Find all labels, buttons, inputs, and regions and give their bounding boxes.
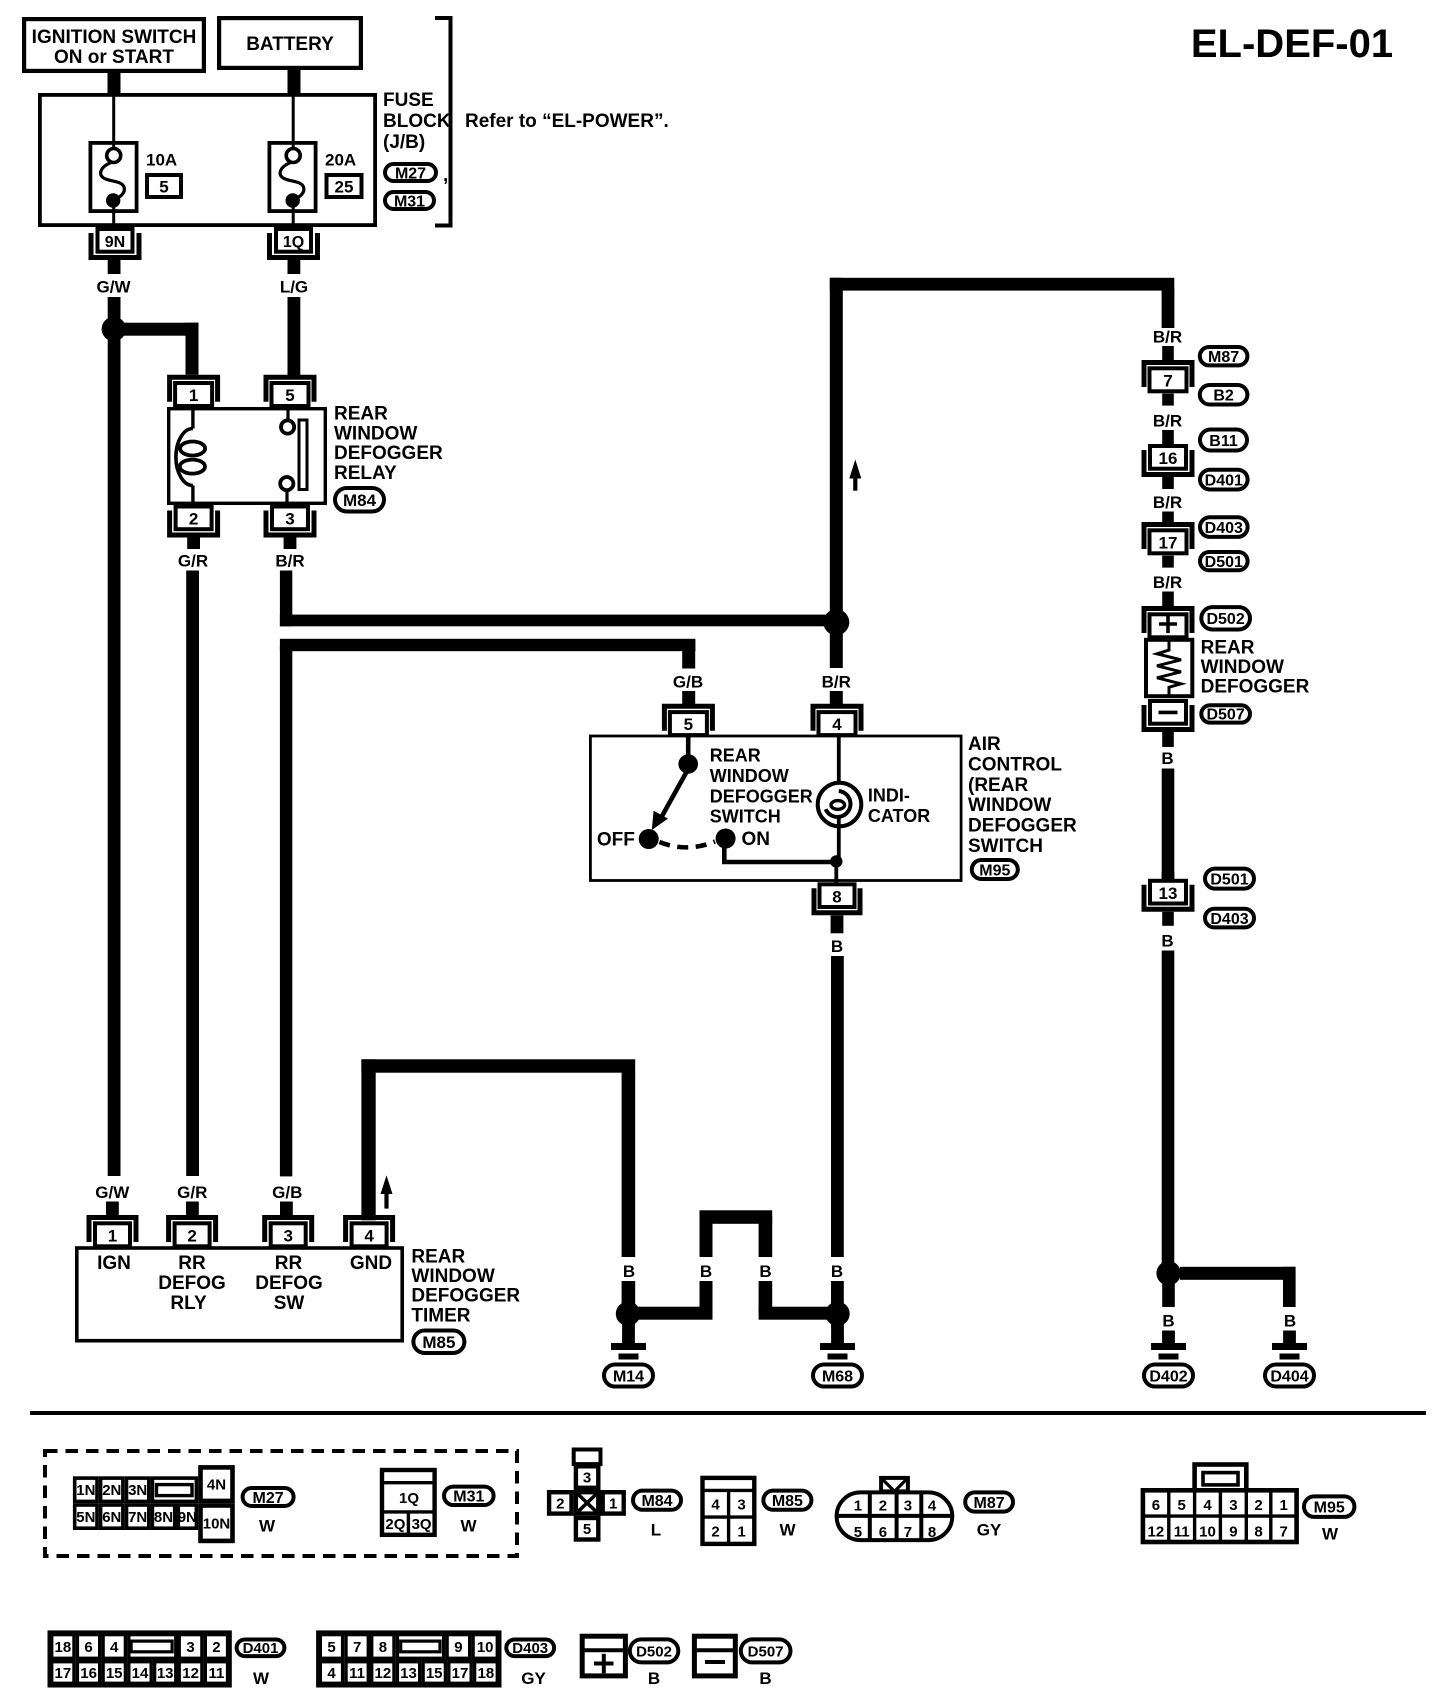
svg-text:D501: D501 <box>1210 871 1248 888</box>
svg-text:OFF: OFF <box>597 830 635 851</box>
svg-text:B: B <box>700 1262 712 1281</box>
svg-text:IGN: IGN <box>97 1253 131 1274</box>
connector ref D502 (chain) <box>1201 607 1250 629</box>
svg-text:2Q: 2Q <box>385 1516 405 1533</box>
svg-text:(J/B): (J/B) <box>383 132 425 153</box>
junction ground node M14 <box>616 1302 640 1326</box>
svg-text:SWITCH: SWITCH <box>710 807 781 827</box>
svg-text:2: 2 <box>212 1639 220 1656</box>
svg-text:CATOR: CATOR <box>868 806 930 826</box>
svg-text:B: B <box>1162 1312 1174 1331</box>
connector 9N (fuse block out) <box>91 229 139 258</box>
svg-text:5: 5 <box>327 1639 335 1656</box>
svg-text:ON or START: ON or START <box>54 47 174 68</box>
svg-text:12: 12 <box>375 1665 392 1682</box>
connector ref M87 (legend) <box>965 1492 1013 1511</box>
svg-text:1: 1 <box>108 1226 117 1245</box>
connector face D507 minus terminal <box>694 1636 735 1676</box>
OFF contact <box>639 829 659 849</box>
svg-text:9N: 9N <box>178 1509 197 1526</box>
inline connector 17 (D403-D501) <box>1144 525 1192 554</box>
svg-text:GY: GY <box>521 1669 546 1688</box>
wire bridge left vertical lower <box>700 1281 713 1313</box>
connector ref D403 (chain2) <box>1205 909 1254 928</box>
svg-text:WINDOW: WINDOW <box>710 766 789 786</box>
svg-text:L: L <box>651 1521 661 1540</box>
flow arrow on B/R vertical <box>849 460 861 491</box>
svg-text:M84: M84 <box>343 491 377 510</box>
svg-text:M95: M95 <box>979 862 1010 879</box>
svg-text:4: 4 <box>327 1665 336 1682</box>
connector face D502 plus terminal <box>582 1636 625 1676</box>
wire ON contact to pin 8 node <box>724 846 836 862</box>
svg-text:4N: 4N <box>207 1477 226 1494</box>
legend dashed box (J/B connectors) <box>45 1451 517 1556</box>
connector ref M27 (fuse block) <box>385 164 436 182</box>
svg-text:RR: RR <box>178 1253 206 1274</box>
svg-text:D402: D402 <box>1149 1368 1187 1385</box>
wire B/R horizontal to node B <box>280 615 843 627</box>
wire L/G vertical to relay pin 5 <box>288 297 301 375</box>
svg-text:AIR: AIR <box>968 734 1001 755</box>
svg-text:B/R: B/R <box>275 552 304 571</box>
wire G/R vertical main <box>186 571 199 1177</box>
connector face M85 pin grid <box>703 1478 755 1544</box>
svg-text:2: 2 <box>189 510 198 529</box>
connector face M87 oval grid <box>837 1478 953 1541</box>
connector ref M14 <box>604 1365 653 1387</box>
svg-text:16: 16 <box>80 1665 97 1682</box>
fuse F1 number 5 <box>147 175 181 197</box>
switch pin 8 connector <box>814 884 860 913</box>
svg-text:M14: M14 <box>613 1368 644 1385</box>
wire G/R stub below relay pin 2 <box>187 538 200 550</box>
connector ref D507 (legend) <box>741 1639 791 1662</box>
connector face D403 pin grid <box>319 1633 499 1685</box>
wire G/W vertical main <box>108 297 121 1176</box>
svg-text:4: 4 <box>1203 1497 1212 1514</box>
wire M68 stub below label <box>831 1281 844 1305</box>
svg-text:1: 1 <box>737 1524 745 1541</box>
switch pin 5 connector <box>664 706 712 735</box>
wire B/R stub into connector 7 <box>1162 346 1174 363</box>
svg-text:7: 7 <box>904 1524 912 1541</box>
junction ground node M68 <box>825 1302 849 1326</box>
svg-text:FUSE: FUSE <box>383 90 434 111</box>
wire ground bus right (bridge to M68) <box>759 1307 840 1320</box>
svg-text:D403: D403 <box>1205 520 1243 537</box>
svg-text:6: 6 <box>879 1524 887 1541</box>
svg-text:D403: D403 <box>512 1640 548 1657</box>
svg-text:B2: B2 <box>1213 388 1234 405</box>
ground D404 (right ground D404) <box>1272 1331 1307 1360</box>
svg-text:17: 17 <box>55 1665 72 1682</box>
switch S1 AIR CONTROL body <box>590 736 961 881</box>
connector ref M85 (legend) <box>763 1491 811 1510</box>
svg-text:5: 5 <box>1178 1497 1186 1514</box>
fuse block (J/B) outline <box>40 95 375 225</box>
wire bridge right vertical lower <box>759 1281 773 1313</box>
svg-text:6: 6 <box>1152 1497 1160 1514</box>
svg-text:B: B <box>831 1262 843 1281</box>
fuse F1 10A (fuse 5) <box>90 93 136 227</box>
wire branch node C to D404 horizontal <box>1180 1267 1296 1280</box>
label REAR WINDOW DEFOGGER RELAY <box>334 404 443 484</box>
wire B/R top corner down to label <box>1162 288 1175 328</box>
wire timer GND horizontal <box>361 1059 635 1072</box>
svg-text:B: B <box>648 1669 660 1688</box>
svg-text:W: W <box>460 1517 477 1536</box>
svg-text:15: 15 <box>426 1665 443 1682</box>
svg-text:2: 2 <box>556 1495 564 1512</box>
svg-text:1: 1 <box>189 386 198 405</box>
svg-text:18: 18 <box>55 1639 72 1656</box>
svg-text:G/R: G/R <box>178 552 208 571</box>
svg-text:7: 7 <box>353 1639 361 1656</box>
svg-text:REAR: REAR <box>411 1247 465 1268</box>
connector ref D501 (chain2) <box>1205 869 1254 889</box>
label REAR WINDOW DEFOGGER (element) <box>1201 638 1310 698</box>
svg-text:DEFOGGER: DEFOGGER <box>334 443 443 464</box>
svg-text:DEFOGGER: DEFOGGER <box>968 816 1077 837</box>
svg-text:2: 2 <box>879 1498 887 1515</box>
svg-text:M68: M68 <box>822 1368 853 1385</box>
svg-text:13: 13 <box>157 1665 174 1682</box>
connector ref M95 (switch) <box>972 860 1018 879</box>
wire B stub below defogger <box>1162 732 1174 747</box>
svg-text:7: 7 <box>1280 1524 1288 1541</box>
svg-text:(REAR: (REAR <box>968 775 1028 796</box>
svg-text:4: 4 <box>110 1639 119 1656</box>
wire bridge right vertical upper <box>759 1216 773 1257</box>
svg-text:3: 3 <box>283 1226 292 1245</box>
svg-text:INDI-: INDI- <box>868 786 910 806</box>
relay pin 2 connector <box>170 507 218 536</box>
wire M14 stub below label <box>622 1281 636 1305</box>
wire B stub below pin 8 <box>831 915 844 933</box>
dashed throw arc OFF to ON <box>659 842 715 848</box>
svg-text:W: W <box>259 1517 276 1536</box>
svg-text:11: 11 <box>349 1665 365 1682</box>
svg-text:D501: D501 <box>1205 554 1243 571</box>
svg-text:1: 1 <box>609 1495 617 1512</box>
svg-text:REAR: REAR <box>334 404 388 425</box>
svg-text:8: 8 <box>379 1639 387 1656</box>
defogger minus terminal connector (D507) <box>1144 701 1192 730</box>
wire B/R vertical node B up to top corner <box>830 278 843 624</box>
svg-text:,: , <box>443 165 448 186</box>
svg-text:8: 8 <box>1254 1524 1262 1541</box>
svg-text:3: 3 <box>1229 1497 1237 1514</box>
svg-text:D502: D502 <box>636 1643 672 1660</box>
svg-text:4: 4 <box>832 715 842 734</box>
wire branch down to D404 <box>1283 1267 1296 1307</box>
connector ref D402 <box>1144 1365 1193 1387</box>
connector ref D502 (legend) <box>630 1639 679 1662</box>
svg-text:CONTROL: CONTROL <box>968 754 1062 775</box>
minus symbol <box>1159 711 1178 715</box>
svg-text:M95: M95 <box>1314 1499 1345 1516</box>
svg-text:25: 25 <box>335 178 354 197</box>
wire G/B vertical left down <box>280 645 292 1176</box>
label REAR WINDOW DEFOGGER TIMER <box>411 1247 520 1327</box>
timer pin 1 connector <box>89 1218 136 1247</box>
connector ref D403 (chain) <box>1200 517 1248 537</box>
connector ref M68 <box>813 1365 862 1387</box>
wire G/B stub to switch pin 5 lower <box>682 691 695 704</box>
svg-text:10N: 10N <box>203 1516 231 1533</box>
timer U2 REAR WINDOW DEFOGGER TIMER body <box>77 1248 402 1341</box>
ON contact <box>716 829 736 849</box>
svg-text:D502: D502 <box>1206 611 1244 628</box>
svg-text:D507: D507 <box>1206 707 1244 724</box>
svg-text:16: 16 <box>1159 449 1178 468</box>
wire branch node A to relay pin 1 horizontal <box>119 323 199 336</box>
switch pin 4 connector <box>813 706 861 735</box>
relay contact <box>286 407 289 420</box>
ground M68 (right ground) <box>820 1322 855 1360</box>
svg-text:M84: M84 <box>641 1493 672 1510</box>
svg-text:5N: 5N <box>76 1509 95 1526</box>
svg-text:B: B <box>759 1669 771 1688</box>
svg-text:3: 3 <box>904 1498 912 1515</box>
connector face M84 cross grid <box>549 1450 624 1540</box>
defogger plus terminal connector (D502) <box>1144 609 1192 638</box>
relay U1 REAR WINDOW DEFOGGER RELAY body <box>169 407 326 505</box>
connector face D401 pin grid <box>50 1633 229 1685</box>
wire G/R stub to timer pin 2 <box>186 1202 199 1216</box>
connector ref D401 (legend) <box>237 1640 285 1658</box>
connector ref M95 (legend) <box>1304 1496 1354 1517</box>
wire B stub below connector 13 <box>1162 912 1174 926</box>
wire B/R stub below relay pin 3 <box>284 538 297 550</box>
svg-text:DEFOGGER: DEFOGGER <box>1201 677 1310 698</box>
svg-text:B: B <box>1161 932 1173 951</box>
svg-text:REAR: REAR <box>710 746 761 766</box>
svg-text:GND: GND <box>350 1253 392 1274</box>
svg-text:WINDOW: WINDOW <box>411 1266 494 1287</box>
svg-text:B11: B11 <box>1209 433 1238 450</box>
relay coil <box>176 429 193 486</box>
wire M14 ground branch vertical <box>622 1072 636 1257</box>
svg-text:G/B: G/B <box>272 1183 302 1202</box>
svg-text:5: 5 <box>684 715 693 734</box>
wire B/R stub to switch pin 4 <box>830 691 843 704</box>
svg-text:5: 5 <box>583 1521 591 1538</box>
svg-text:2N: 2N <box>102 1482 121 1499</box>
label AIR CONTROL (REAR WINDOW DEFOGGER SWITCH <box>968 734 1077 857</box>
svg-text:WINDOW: WINDOW <box>1201 657 1284 678</box>
connector ref M85 (timer) <box>413 1331 464 1354</box>
svg-text:1Q: 1Q <box>283 234 304 251</box>
svg-text:SW: SW <box>274 1293 305 1314</box>
connector ref D507 (chain) <box>1201 705 1250 724</box>
wire G/W stub to timer pin 1 <box>106 1202 119 1216</box>
svg-text:M87: M87 <box>1208 349 1239 366</box>
inline connector 7 (M87-B2) <box>1144 363 1192 392</box>
connector ref B11 (chain) <box>1200 430 1247 451</box>
wire bridge top horizontal <box>700 1210 773 1224</box>
svg-text:M27: M27 <box>395 165 426 182</box>
svg-text:TIMER: TIMER <box>411 1305 470 1326</box>
wire B/R horizontal top run to right side <box>830 278 1175 291</box>
connector ref M84 (relay) <box>335 488 384 512</box>
connector face M31 pin grid <box>382 1470 435 1535</box>
resistor R1 rear window defogger grid <box>1146 640 1192 696</box>
svg-text:WINDOW: WINDOW <box>334 423 417 444</box>
svg-text:5: 5 <box>854 1524 862 1541</box>
svg-text:M85: M85 <box>772 1493 803 1510</box>
svg-text:14: 14 <box>132 1665 149 1682</box>
svg-text:SWITCH: SWITCH <box>968 836 1043 857</box>
timer pin 4 connector <box>346 1218 393 1247</box>
power box IGNITION SWITCH ON or START <box>24 19 204 71</box>
svg-text:8: 8 <box>832 888 841 907</box>
svg-text:L/G: L/G <box>280 278 308 297</box>
svg-text:BLOCK: BLOCK <box>383 111 451 132</box>
plus symbol <box>1159 615 1177 633</box>
connector ref B2 (chain) <box>1200 385 1248 405</box>
svg-text:WINDOW: WINDOW <box>968 795 1051 816</box>
svg-text:1Q: 1Q <box>399 1490 419 1507</box>
label REAR WINDOW DEFOGGER SWITCH (inside) <box>710 746 813 827</box>
svg-text:2: 2 <box>711 1524 719 1541</box>
wire B/R stub below connector 16 <box>1162 477 1174 489</box>
connector ref M87 (chain) <box>1200 347 1248 366</box>
svg-text:4: 4 <box>928 1498 937 1515</box>
switch feed line from pin 5 <box>686 735 691 757</box>
wire ignition switch to fuse block <box>108 73 121 94</box>
switch pivot contact <box>678 754 698 774</box>
svg-text:M87: M87 <box>974 1495 1005 1512</box>
svg-text:B: B <box>831 937 843 956</box>
wire B/R stub into connector 17 <box>1162 512 1174 525</box>
svg-text:20A: 20A <box>325 151 356 170</box>
svg-text:G/B: G/B <box>673 673 703 692</box>
svg-text:DEFOGGER: DEFOGGER <box>411 1286 520 1307</box>
svg-text:12: 12 <box>1148 1524 1165 1541</box>
svg-text:D401: D401 <box>1205 472 1243 489</box>
wire B vertical switch to ground M68 <box>831 956 844 1257</box>
svg-text:17: 17 <box>1159 533 1178 552</box>
svg-text:8: 8 <box>928 1524 936 1541</box>
wire B stub into connector 13 <box>1162 872 1175 882</box>
wire timer GND vertical <box>361 1059 375 1220</box>
bracket fuse block reference <box>435 18 451 226</box>
wire node to pin 8 <box>834 862 838 886</box>
svg-text:4: 4 <box>364 1226 374 1245</box>
svg-text:B: B <box>1284 1312 1296 1331</box>
svg-text:B/R: B/R <box>1153 328 1182 347</box>
svg-text:6N: 6N <box>102 1509 121 1526</box>
svg-text:BATTERY: BATTERY <box>246 34 334 55</box>
svg-text:IGNITION SWITCH: IGNITION SWITCH <box>32 27 197 48</box>
svg-text:M27: M27 <box>253 1490 284 1507</box>
svg-text:G/W: G/W <box>97 278 132 297</box>
svg-text:18: 18 <box>478 1665 495 1682</box>
wire B/R stub into defogger plus <box>1162 592 1174 608</box>
wire B/R stub into connector 16 <box>1162 430 1174 444</box>
svg-text:2: 2 <box>187 1226 196 1245</box>
svg-text:D404: D404 <box>1270 1368 1308 1385</box>
fuse F2 20A (fuse 25) <box>269 93 315 227</box>
wire B/R stub above label (node B down) <box>830 630 843 668</box>
wire G/W stub below 9N <box>108 260 121 274</box>
connector ref M84 (legend) <box>633 1491 681 1510</box>
svg-text:W: W <box>253 1669 270 1688</box>
wire bridge left vertical upper <box>700 1216 713 1257</box>
connector 1Q (fuse block out) <box>270 229 318 258</box>
connector ref M31 (legend) <box>444 1487 494 1506</box>
svg-text:7: 7 <box>1163 371 1172 390</box>
svg-text:17: 17 <box>452 1665 469 1682</box>
svg-text:B/R: B/R <box>1153 493 1182 512</box>
inline connector 13 (D501-D403) <box>1144 881 1192 910</box>
svg-text:3N: 3N <box>128 1482 147 1499</box>
connector ref M27 (legend) <box>243 1488 294 1507</box>
wire battery to fuse block <box>288 70 301 94</box>
svg-text:M31: M31 <box>453 1489 484 1506</box>
svg-text:RELAY: RELAY <box>334 463 397 484</box>
connector ref D501 (chain) <box>1200 552 1248 571</box>
svg-text:2: 2 <box>1254 1497 1262 1514</box>
svg-text:11: 11 <box>208 1665 224 1682</box>
svg-text:12: 12 <box>182 1665 199 1682</box>
svg-text:DEFOG: DEFOG <box>255 1273 323 1294</box>
svg-text:G/W: G/W <box>95 1183 130 1202</box>
junction node B (B/R junction) <box>823 609 849 635</box>
svg-text:D507: D507 <box>748 1643 784 1660</box>
wire B vertical defogger to 13 <box>1162 769 1175 879</box>
svg-text:B/R: B/R <box>822 673 851 692</box>
svg-text:10A: 10A <box>146 151 177 170</box>
svg-text:M31: M31 <box>394 193 425 210</box>
svg-text:9: 9 <box>1229 1524 1237 1541</box>
wire B/R stub below connector 7 <box>1162 394 1174 406</box>
wire G/B stub to timer pin 3 <box>280 1202 293 1216</box>
svg-text:6: 6 <box>84 1639 92 1656</box>
svg-text:Refer to “EL-POWER”.: Refer to “EL-POWER”. <box>465 111 669 132</box>
svg-text:RR: RR <box>275 1253 303 1274</box>
fuse F2 number 25 <box>327 175 362 197</box>
svg-text:5: 5 <box>285 386 294 405</box>
svg-text:1: 1 <box>854 1498 862 1515</box>
svg-text:3: 3 <box>583 1470 591 1487</box>
svg-text:ON: ON <box>742 829 771 850</box>
svg-text:3Q: 3Q <box>412 1516 432 1533</box>
relay pin 5 connector <box>266 377 314 406</box>
label INDICATOR <box>868 786 930 826</box>
svg-text:B/R: B/R <box>1153 573 1182 592</box>
svg-text:5: 5 <box>159 178 168 197</box>
svg-text:G/R: G/R <box>177 1183 207 1202</box>
connector ref M31 (fuse block) <box>385 192 434 210</box>
node pin8 inner junction <box>830 855 842 867</box>
svg-text:W: W <box>1322 1525 1339 1544</box>
ground D402 (right ground D402) <box>1151 1331 1186 1360</box>
connector face M95 pin grid <box>1143 1465 1297 1543</box>
svg-text:RLY: RLY <box>170 1293 207 1314</box>
svg-text:REAR: REAR <box>1201 638 1255 659</box>
svg-text:D403: D403 <box>1210 911 1248 928</box>
label FUSE BLOCK (J/B) <box>383 90 451 153</box>
svg-text:GY: GY <box>977 1521 1002 1540</box>
relay pin 3 connector <box>266 507 314 536</box>
svg-text:1N: 1N <box>76 1482 95 1499</box>
svg-text:B: B <box>623 1262 635 1281</box>
svg-text:3: 3 <box>737 1497 745 1514</box>
wire L/G stub below 1Q <box>288 260 301 274</box>
